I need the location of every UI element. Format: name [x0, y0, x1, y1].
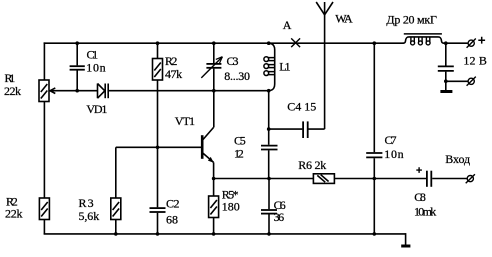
- label R5*: [222, 187, 239, 201]
- resistor R2 22k (lower left): [39, 198, 49, 220]
- wire R1 wiper to C1 junction: [50, 90, 97, 92]
- svg-text:68: 68: [166, 213, 178, 227]
- wire C7 upper stem (top rail to C7): [373, 42, 375, 152]
- label C2 value 68: [166, 213, 178, 227]
- wire ground stem under 12V: [445, 81, 447, 90]
- svg-text:Др 20 мкГ: Др 20 мкГ: [386, 13, 437, 27]
- junction top rail R2: [156, 41, 160, 45]
- label R2 lower value 22k: [5, 207, 23, 221]
- terminal -12V: [467, 77, 476, 86]
- choke Dr 20 mkG: [403, 34, 444, 45]
- label C8 plus: [416, 167, 422, 173]
- label R1: [5, 71, 16, 85]
- label choke Dr 20 mkG: [386, 13, 437, 27]
- inductor L1: [264, 43, 275, 90]
- wire R5 upper stem: [213, 179, 215, 197]
- svg-text:22k: 22k: [5, 207, 23, 221]
- svg-text:180: 180: [222, 200, 240, 214]
- label input Vhod: [445, 152, 470, 166]
- svg-text:C2: C2: [166, 196, 180, 210]
- ground bottom right: [401, 245, 410, 248]
- wire top rail left (from left rail to choke): [44, 42, 404, 44]
- label C5 value 12: [234, 147, 244, 161]
- wire C7 node to bottom rail: [373, 179, 375, 234]
- svg-text:C8: C8: [414, 190, 426, 204]
- svg-text:C1: C1: [87, 47, 99, 61]
- wire top rail right (choke to + terminal): [443, 42, 468, 44]
- capacitor C6 36: [261, 210, 277, 214]
- label R3: [79, 196, 94, 210]
- wire R3 lower stem: [115, 220, 117, 234]
- wire R2(47k) bottom to base node: [157, 80, 159, 147]
- wire minus terminal: [446, 80, 468, 82]
- junction row C3 bottom: [212, 89, 216, 93]
- wire 12V cap upper stem: [445, 43, 447, 65]
- svg-text:R3: R3: [79, 196, 94, 210]
- label C1: [87, 47, 99, 61]
- svg-text:36: 36: [274, 210, 285, 224]
- label C4 value: [287, 99, 316, 113]
- label C8 value 10mk: [414, 205, 436, 219]
- svg-text:VT1: VT1: [175, 114, 195, 128]
- label R5 value 180: [222, 200, 240, 214]
- wire R2(47k) top stem: [157, 42, 159, 58]
- label C2: [166, 196, 180, 210]
- label plus 12V: [478, 37, 485, 44]
- junction bottom rail C6: [267, 232, 271, 236]
- wire C8 to input terminal: [432, 178, 467, 180]
- terminal +12V: [467, 39, 476, 48]
- label VD1: [86, 102, 107, 116]
- wire ground stem bottom right: [405, 233, 407, 245]
- svg-text:WA: WA: [335, 11, 353, 25]
- svg-text:10n: 10n: [384, 147, 403, 161]
- wire left rail upper (top rail to R1): [43, 42, 45, 80]
- svg-text:C5: C5: [234, 134, 246, 148]
- resistor R6 2k (horizontal): [313, 174, 334, 184]
- wire C6 upper stem: [268, 179, 270, 210]
- capacitor C7 10n: [366, 153, 382, 157]
- wire VD1 cathode to C3/collector node to L1 bottom: [109, 90, 269, 92]
- label C6 value 36: [274, 210, 285, 224]
- capacitor 12V filter: [438, 66, 454, 71]
- svg-text:8...30: 8...30: [224, 69, 250, 83]
- wire base (R3 top node to VT1 base): [116, 146, 202, 148]
- capacitor C2 68: [150, 208, 166, 212]
- label C3: [227, 54, 239, 68]
- label C7: [385, 133, 397, 147]
- junction C4 branch: [267, 127, 271, 131]
- capacitor C8 10mk electrolytic: [427, 171, 431, 187]
- wire C3 upper stem: [213, 42, 215, 63]
- transistor VT1: [202, 127, 214, 178]
- ground under 12V: [440, 90, 452, 93]
- label C6: [274, 198, 286, 212]
- wire left rail middle (R1 to R2): [43, 102, 45, 199]
- label R2 47k: [165, 54, 177, 68]
- junction top rail C1: [75, 41, 79, 45]
- label node A: [283, 18, 292, 32]
- wire R6 to C7 node: [334, 178, 374, 180]
- svg-text:R2: R2: [165, 54, 177, 68]
- wire R3 upper stem: [115, 147, 117, 198]
- junction bottom rail C7: [373, 232, 377, 236]
- wire C1 lower stem: [76, 71, 78, 91]
- junction bottom rail C2: [156, 232, 160, 236]
- wire left rail lower (R2 to bottom rail): [43, 220, 45, 234]
- junction 12V minus: [444, 79, 448, 83]
- capacitor C4 15: [303, 121, 308, 138]
- label R3 value 5,6k: [79, 209, 100, 223]
- svg-text:C3: C3: [227, 54, 239, 68]
- wire C6 lower stem: [268, 214, 270, 234]
- svg-text:5,6k: 5,6k: [79, 209, 100, 223]
- label 12 V: [463, 53, 487, 67]
- svg-text:22k: 22k: [4, 84, 21, 98]
- capacitor C5 12: [261, 146, 278, 150]
- junction bottom rail R5: [212, 232, 216, 236]
- junction row C1 bottom: [75, 89, 79, 93]
- svg-text:10n: 10n: [86, 61, 105, 75]
- junction row L1 bottom: [267, 89, 271, 93]
- wire bottom rail: [44, 233, 406, 235]
- svg-text:R6 2k: R6 2k: [298, 158, 326, 172]
- junction emitter row C6: [267, 177, 271, 181]
- label R1 value 22k: [4, 84, 21, 98]
- svg-text:A: A: [283, 18, 292, 32]
- wire C4 left stem: [269, 128, 303, 130]
- junction top rail C7: [373, 41, 377, 45]
- capacitor C3 trimmer 8...30: [201, 57, 222, 78]
- wire C5 lower stem: [268, 150, 270, 178]
- label C7 value 10n: [384, 147, 403, 161]
- svg-text:12 В: 12 В: [463, 53, 487, 67]
- junction bottom rail R3: [114, 232, 118, 236]
- wire emitter row (emitter node to R6): [214, 178, 314, 180]
- junction top rail choke out: [444, 41, 448, 45]
- svg-text:12: 12: [234, 147, 244, 161]
- wire C7 node to C8: [374, 178, 426, 180]
- label VT1: [175, 114, 195, 128]
- svg-text:Вход: Вход: [445, 152, 470, 166]
- label WA: [335, 11, 353, 25]
- resistor R2 47k: [153, 59, 163, 81]
- svg-text:10mk: 10mk: [414, 205, 436, 219]
- label L1: [279, 60, 290, 74]
- terminal input: [466, 174, 475, 183]
- wire C2 upper stem: [157, 147, 159, 207]
- wire R5 lower stem: [213, 218, 215, 234]
- label R2 value 47k: [165, 67, 182, 81]
- wire C5 upper stem: [268, 91, 270, 145]
- junction emitter node: [212, 177, 216, 181]
- svg-text:L1: L1: [279, 60, 290, 74]
- wire collector stem: [213, 91, 215, 128]
- svg-text:47k: 47k: [165, 67, 182, 81]
- wire C4 right stem to antenna line: [308, 128, 324, 130]
- junction base node: [156, 146, 160, 150]
- label C1 value 10n: [86, 61, 105, 75]
- svg-text:VD1: VD1: [86, 102, 107, 116]
- label R2 22k lower: [6, 194, 18, 208]
- varicap diode VD1: [98, 84, 109, 99]
- label C8: [414, 190, 426, 204]
- svg-text:R1: R1: [5, 71, 16, 85]
- junction top rail L1: [267, 41, 271, 45]
- wire C1 upper stem: [76, 42, 78, 65]
- wire C3 lower stem: [213, 69, 215, 91]
- label R6 2k: [298, 158, 326, 172]
- junction emitter row C7: [373, 177, 377, 181]
- antenna WA: [316, 2, 333, 129]
- resistor R1 (potentiometer 22k): [39, 80, 55, 102]
- junction top rail C3: [212, 41, 216, 45]
- label C3 value 8...30: [224, 69, 250, 83]
- label C5: [234, 134, 246, 148]
- capacitor C1 10n: [70, 66, 85, 70]
- svg-text:C4 15: C4 15: [287, 99, 316, 113]
- wire C2 lower stem: [157, 213, 159, 234]
- svg-text:C7: C7: [385, 133, 397, 147]
- wire C7 lower stem: [373, 158, 375, 178]
- node A jumper X: [291, 38, 300, 47]
- wire 12V cap lower stem: [445, 72, 447, 82]
- resistor R3 5,6k: [111, 198, 121, 220]
- resistor R5* 180: [209, 196, 219, 218]
